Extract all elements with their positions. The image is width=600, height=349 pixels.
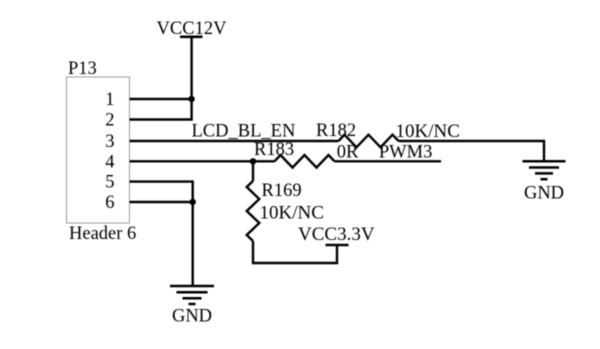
svg-text:R183: R183 bbox=[254, 140, 294, 160]
resistor R182 body bbox=[339, 135, 399, 148]
wire R183 to net PWM3 end bbox=[335, 160, 442, 162]
wire pin 4 to R183 bbox=[130, 160, 275, 162]
connector P13 body bbox=[67, 77, 130, 223]
svg-text:Header 6: Header 6 bbox=[69, 224, 136, 244]
svg-text:LCD_BL_EN: LCD_BL_EN bbox=[192, 122, 296, 142]
svg-text:GND: GND bbox=[172, 307, 212, 327]
svg-text:2: 2 bbox=[105, 111, 114, 131]
wire pin 3 to R182 bbox=[130, 140, 339, 142]
wire pin 5 bbox=[130, 182, 193, 202]
svg-text:3: 3 bbox=[105, 132, 114, 152]
svg-text:1: 1 bbox=[105, 90, 114, 110]
svg-text:R169: R169 bbox=[262, 181, 302, 201]
junction pin 1 / VCC12V bbox=[188, 96, 194, 102]
wire pin 6 down to ground bbox=[191, 202, 193, 286]
wire R169 bottom to VCC3.3V bbox=[253, 241, 337, 263]
power symbol VCC12V bar bbox=[180, 35, 203, 38]
svg-text:P13: P13 bbox=[68, 59, 97, 79]
resistor R169 body (vertical) bbox=[247, 181, 260, 241]
svg-text:4: 4 bbox=[105, 152, 114, 172]
resistor R183 body bbox=[275, 155, 335, 168]
ground symbol right: bars bbox=[523, 161, 566, 179]
svg-text:0R: 0R bbox=[337, 142, 359, 162]
wire pin 1 bbox=[130, 98, 192, 100]
wire pin 6 bbox=[130, 201, 193, 203]
junction pin 6 / GND bbox=[190, 199, 196, 205]
wire R182 to right corner bbox=[399, 141, 545, 161]
svg-text:10K/NC: 10K/NC bbox=[260, 203, 324, 224]
ground symbol left: bars bbox=[170, 286, 214, 304]
svg-text:5: 5 bbox=[105, 173, 114, 193]
svg-text:R182: R182 bbox=[316, 121, 356, 141]
svg-text:6: 6 bbox=[105, 193, 114, 213]
power symbol VCC3.3V bar bbox=[326, 244, 349, 247]
wire R169 top stem bbox=[252, 161, 254, 181]
junction pin 4 / R169 bbox=[250, 158, 256, 164]
wire VCC12V stem down to pin 2 row bbox=[190, 37, 192, 120]
svg-text:VCC3.3V: VCC3.3V bbox=[298, 224, 375, 245]
svg-text:PWM3: PWM3 bbox=[379, 142, 432, 162]
svg-text:GND: GND bbox=[524, 184, 564, 204]
wire pin 2 bbox=[130, 118, 193, 120]
svg-text:10K/NC: 10K/NC bbox=[396, 121, 460, 142]
